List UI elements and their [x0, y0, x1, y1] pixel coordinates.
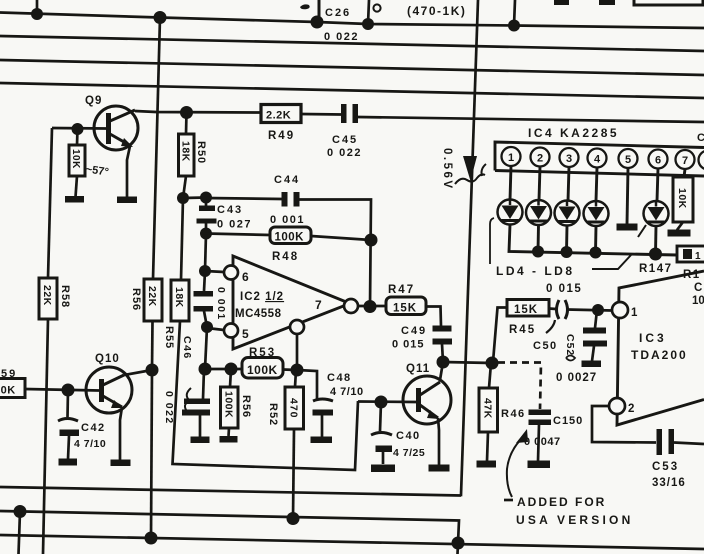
svg-text:(470-1K): (470-1K) — [407, 4, 466, 18]
svg-text:C45: C45 — [332, 134, 358, 146]
svg-text:C40: C40 — [396, 430, 421, 442]
arrow on 0.56V line — [463, 156, 477, 181]
LED LD5 — [526, 200, 551, 225]
node junction dot R46 top — [486, 357, 499, 370]
svg-text:15K: 15K — [514, 304, 538, 316]
wire C44 row — [206, 198, 282, 199]
svg-text:1: 1 — [508, 152, 514, 164]
op-amp IC2 pin6 circle — [224, 266, 238, 280]
transistor Q11 — [403, 376, 451, 424]
svg-text:6: 6 — [655, 155, 661, 167]
svg-text:R56: R56 — [130, 288, 142, 311]
node junction dot Q11 base — [375, 396, 388, 409]
node junction dot bus B x293 — [287, 512, 300, 525]
squiggle pointer to cap — [185, 388, 191, 413]
node junction dot R52 top — [291, 364, 304, 377]
wire R48 right to feedback vertical — [311, 236, 371, 240]
svg-text:0 015: 0 015 — [546, 283, 582, 295]
wire pin5 lead with ground — [617, 168, 638, 231]
node junction dot left of C43 — [177, 192, 189, 204]
capacitor C53 — [657, 429, 675, 455]
label ADDED FOR — [504, 495, 606, 509]
svg-text:1: 1 — [695, 251, 701, 262]
wire R48 left — [206, 234, 270, 236]
wire Q11 collector lead — [440, 362, 443, 380]
wire pin5 — [207, 328, 224, 330]
svg-text:0 022: 0 022 — [163, 391, 175, 425]
wire to C43 top — [183, 196, 206, 199]
LED LD6 — [555, 201, 580, 226]
wire R49 to C45 — [301, 113, 342, 116]
svg-text:USA VERSION: USA VERSION — [516, 513, 633, 527]
wire pin5 node down — [205, 327, 207, 369]
svg-text:LD4 - LD8: LD4 - LD8 — [496, 264, 575, 278]
capacitor C45 — [341, 104, 358, 123]
op-amp IC3 pin1 circle — [612, 302, 628, 318]
svg-text:2.2K: 2.2K — [266, 110, 291, 122]
wire Q9 collector row — [135, 111, 261, 113]
svg-text:R47: R47 — [388, 284, 415, 296]
capacitor C52 with ground — [582, 310, 608, 367]
resistor R49 box 2.2K — [261, 105, 301, 123]
resistor R47 15K — [386, 297, 426, 315]
wire R52 bottom down to bus B — [293, 429, 294, 519]
resistor R56 100K with ground — [220, 369, 239, 443]
wire bus line 3 — [0, 60, 704, 75]
node junction dot bus B x20 — [14, 505, 27, 518]
wire bus A bottom — [0, 487, 461, 496]
wire LD7 bottom lead — [594, 226, 597, 253]
svg-text:Q9: Q9 — [85, 95, 102, 107]
component outlined box cut at top edge — [634, 0, 703, 5]
svg-text:R49: R49 — [268, 130, 295, 142]
node junction dot pin5 node — [201, 321, 213, 333]
wire R47 to C49 — [426, 307, 441, 327]
wire R50 bottom to C43 node — [183, 176, 186, 198]
pointer from LD label — [592, 255, 631, 269]
svg-text:R46: R46 — [501, 408, 526, 420]
ground under 10K — [65, 176, 84, 203]
svg-text:IC3: IC3 — [639, 331, 667, 345]
svg-text:33/16: 33/16 — [652, 477, 686, 489]
wire R56 bottom to collector node — [151, 321, 154, 370]
resistor 10K at pin7 with ground — [668, 177, 694, 237]
svg-text:4: 4 — [594, 154, 601, 166]
svg-text:5: 5 — [242, 327, 249, 341]
capacitor C44 — [282, 192, 300, 207]
component block cut at top edge 1 — [554, 0, 569, 5]
svg-text:MC4558: MC4558 — [235, 308, 282, 320]
svg-text:3: 3 — [566, 153, 572, 165]
wire R53 row left — [205, 368, 242, 371]
wire R53 right to R52 node — [283, 368, 297, 371]
wire pin1 lead — [510, 166, 511, 200]
svg-text:2: 2 — [537, 153, 543, 165]
node junction dot on bus C x151 — [145, 532, 158, 545]
node junction dot C42 top — [62, 384, 75, 397]
svg-text:C: C — [697, 132, 704, 144]
node blob near C26 — [300, 4, 310, 9]
wire pin2 to C53 — [592, 406, 656, 443]
capacitor C46 between pin6 and pin5 nodes — [194, 271, 214, 327]
wire Q9 emitter lead — [127, 146, 130, 197]
svg-text:7: 7 — [315, 298, 322, 312]
svg-text:10K: 10K — [70, 149, 81, 169]
wire R58 bottom to image bottom — [43, 319, 48, 554]
svg-text:C26: C26 — [325, 7, 351, 19]
wire Q11 collector node to R46 node — [443, 362, 492, 363]
op-amp IC3 wedge — [617, 271, 704, 425]
wire pin3 lead — [568, 167, 569, 201]
capacitor C48 with ground — [311, 399, 334, 443]
node junction dot R50 top — [180, 106, 193, 119]
resistor R50 — [179, 113, 195, 177]
wire corner into R45 — [493, 308, 507, 363]
wire C53 to right edge — [674, 443, 704, 445]
wire Q9 base wire — [52, 127, 106, 130]
svg-text:100K: 100K — [247, 363, 278, 377]
wire pin6 lead — [657, 169, 658, 202]
resistor R48 100K — [270, 227, 311, 244]
transistor Q9 — [94, 106, 138, 150]
svg-text:R48: R48 — [272, 251, 299, 263]
svg-text:15K: 15K — [393, 303, 417, 315]
svg-text:2: 2 — [628, 403, 634, 415]
resistor R45 15K — [507, 300, 549, 317]
node junction dot C52 top — [592, 304, 604, 316]
op-amp IC2 output circle pin7 — [344, 299, 358, 313]
svg-text:R147: R147 — [639, 263, 673, 275]
wire pin4 lead — [596, 168, 597, 202]
svg-text:Q11: Q11 — [406, 363, 430, 375]
resistor R55 — [171, 280, 189, 321]
svg-text:0 022: 0 022 — [327, 147, 362, 159]
op-amp IC2 triangle — [233, 256, 350, 349]
wire stub to top edge at x368 — [368, 0, 369, 24]
svg-text:5: 5 — [625, 154, 631, 166]
svg-text:6: 6 — [242, 270, 249, 284]
LED LD8 — [644, 201, 669, 226]
svg-text:18K: 18K — [173, 287, 185, 308]
svg-text:C42: C42 — [81, 422, 106, 434]
node junction dot Q9 base — [72, 123, 84, 135]
capacitor C150 with ground — [528, 410, 552, 469]
wire C43 node down to pin6 node — [205, 234, 206, 272]
wire bus line 1 — [0, 13, 704, 29]
wire LD8 bottom lead — [654, 226, 657, 254]
svg-text:R56: R56 — [240, 395, 252, 418]
component block cut at top edge 2 — [599, 0, 615, 5]
svg-text:R53: R53 — [249, 347, 276, 359]
node small o mark at x377 — [373, 4, 380, 11]
wire dashed to C150 — [498, 363, 541, 410]
svg-text:C49: C49 — [401, 325, 427, 337]
svg-text:ADDED FOR: ADDED FOR — [517, 495, 606, 509]
wire LD6 bottom lead — [565, 226, 568, 253]
svg-text:0 001: 0 001 — [270, 214, 305, 226]
LED LD4 — [498, 200, 523, 225]
node junction dot IC2 output — [364, 300, 377, 313]
resistor R147 box at right edge — [677, 246, 704, 262]
wire C48 branch — [297, 370, 317, 399]
svg-text:IC4 KA2285: IC4 KA2285 — [528, 126, 619, 140]
wire LED bottoms bus — [509, 225, 677, 256]
handwritten tick near pin5 ground — [638, 225, 646, 237]
arrowhead of pointer — [516, 429, 528, 443]
wire bus vertical from line1 to R56 — [153, 18, 160, 280]
transistor Q10 — [86, 367, 132, 413]
svg-text:470: 470 — [288, 398, 300, 419]
node junction dots on bus line 1 — [31, 8, 520, 32]
svg-text:22K: 22K — [41, 285, 53, 306]
wire bus line 4 — [0, 83, 704, 98]
squiggle across arrow — [455, 174, 485, 184]
wire pin2 lead — [539, 167, 540, 201]
wire feedback circle down to R52 node — [296, 334, 299, 370]
svg-text:0 001: 0 001 — [215, 287, 227, 321]
wire bus C bottom — [0, 535, 704, 549]
svg-text:R58: R58 — [59, 285, 71, 308]
wire C44 to feedback vertical — [300, 200, 372, 308]
svg-text:100K: 100K — [275, 232, 305, 244]
svg-text:R55: R55 — [163, 326, 175, 349]
svg-text:C50: C50 — [533, 340, 558, 352]
resistor R59 10K box at left edge — [0, 379, 25, 398]
svg-text:0 015: 0 015 — [392, 339, 425, 351]
svg-text:C52: C52 — [564, 334, 576, 356]
node junction dot below C43 — [200, 228, 212, 240]
squiggle under C52 label — [566, 356, 575, 361]
svg-text:100K: 100K — [223, 391, 235, 418]
wire stub from bus B dot to bottom — [19, 512, 21, 554]
IC4 box bottom edge — [495, 171, 704, 177]
svg-text:0 027: 0 027 — [217, 219, 252, 231]
op-amp IC2 pin5 circle — [224, 324, 238, 338]
svg-text:Q10: Q10 — [95, 353, 120, 365]
capacitor C40 with ground — [371, 402, 395, 472]
wire stub to top edge at x514 — [514, 0, 515, 26]
svg-text:C43: C43 — [217, 204, 243, 216]
node junction dot Q11 collector — [437, 356, 450, 369]
wire C45 to right edge — [358, 117, 704, 122]
IC4 pin circles 1-7 — [502, 147, 704, 170]
capacitor 0.022 below with ground — [182, 369, 210, 443]
svg-text:47K: 47K — [482, 398, 494, 419]
wire vertical R50 node down to R55 — [181, 198, 183, 280]
svg-text:C: C — [694, 282, 702, 294]
node junction dot R48 feedback — [365, 234, 378, 247]
node junction dot Q10 collector — [146, 364, 159, 377]
wire collector node down to bus C — [151, 370, 152, 538]
svg-text:R52: R52 — [267, 403, 279, 426]
wire R59 to Q10 base — [25, 389, 99, 391]
resistor R52 470 — [285, 370, 304, 429]
wire Q10 emitter with ground — [111, 407, 131, 466]
svg-text:0 0027: 0 0027 — [556, 372, 597, 384]
svg-text:C53: C53 — [652, 461, 679, 473]
node junction dot bus C x458 — [452, 537, 465, 550]
wire Q10 collector to node — [124, 370, 152, 375]
wire vertical from Q9 base to R58 — [48, 128, 52, 278]
resistor R53 100K — [242, 358, 283, 379]
wire pin6 — [205, 271, 224, 272]
op-amp IC2 feedback circle on bottom edge — [290, 320, 304, 334]
wire bus B bottom — [0, 511, 459, 554]
svg-text:C150: C150 — [553, 415, 583, 427]
svg-text:4 7/10: 4 7/10 — [74, 438, 106, 450]
wire Q11 base — [358, 400, 416, 403]
wire C26 lead — [318, 0, 321, 22]
svg-text:R45: R45 — [509, 324, 536, 336]
node junction dot R56 top — [225, 363, 238, 376]
wire stub to top edge at x37 — [36, 0, 39, 14]
svg-text:C46: C46 — [181, 336, 193, 360]
resistor R46 47K with ground — [477, 363, 498, 468]
svg-text:~57°: ~57° — [85, 163, 110, 178]
capacitor C43 — [197, 198, 217, 234]
pointer curve to ADDED FOR note — [507, 437, 523, 497]
handwritten slash below R45 — [546, 320, 555, 333]
wire bus line 2 — [0, 36, 704, 51]
svg-text:4 7/25: 4 7/25 — [393, 447, 425, 459]
wire IC2 output to R47 — [358, 305, 386, 308]
svg-text:TDA200: TDA200 — [631, 348, 688, 362]
IC4 box — [495, 142, 704, 171]
svg-text:IC2 1/2: IC2 1/2 — [240, 291, 284, 303]
capacitor C49 — [433, 326, 453, 363]
capacitor C50 curved plates — [549, 300, 612, 319]
svg-text:18K: 18K — [180, 141, 192, 162]
op-amp IC3 pin2 circle — [609, 398, 625, 414]
bracket for LD4-LD8 — [490, 218, 494, 264]
node junction dot C43 top — [200, 192, 212, 204]
svg-text:4 7/10: 4 7/10 — [330, 386, 364, 398]
wire pin7 lead — [684, 169, 685, 177]
resistor R56 22K — [144, 279, 162, 321]
svg-text:R50: R50 — [195, 141, 207, 164]
handwritten mark left of IC4 — [482, 164, 487, 176]
svg-text:10K: 10K — [676, 188, 688, 209]
svg-text:0 0047: 0 0047 — [524, 436, 561, 448]
wire R55 bottom long path to Q11 base — [173, 321, 359, 470]
svg-text:0 022: 0 022 — [324, 31, 359, 43]
resistor 10K at Q9 base — [69, 129, 85, 176]
svg-text:7: 7 — [682, 155, 688, 167]
svg-text:10: 10 — [692, 295, 704, 307]
wire Q11 emitter with ground — [429, 418, 450, 472]
resistor R58 — [39, 278, 57, 319]
svg-text:22K: 22K — [146, 286, 158, 307]
svg-text:10K: 10K — [0, 385, 16, 397]
capacitor C42 with ground — [58, 390, 79, 466]
LED LD7 — [584, 201, 609, 226]
node junction dot pin6 node — [199, 265, 211, 277]
svg-text:0.56V: 0.56V — [441, 148, 453, 191]
wire vertical measurement line 0.56V — [461, 0, 478, 495]
node junction dot lower cap node — [199, 363, 212, 376]
svg-text:C44: C44 — [274, 174, 300, 186]
ground Q9 emitter — [117, 197, 137, 204]
svg-text:C48: C48 — [327, 372, 352, 384]
svg-text:1: 1 — [631, 307, 638, 319]
node junction dots on LED bus — [532, 246, 662, 261]
wire LD5 bottom lead — [537, 225, 540, 252]
